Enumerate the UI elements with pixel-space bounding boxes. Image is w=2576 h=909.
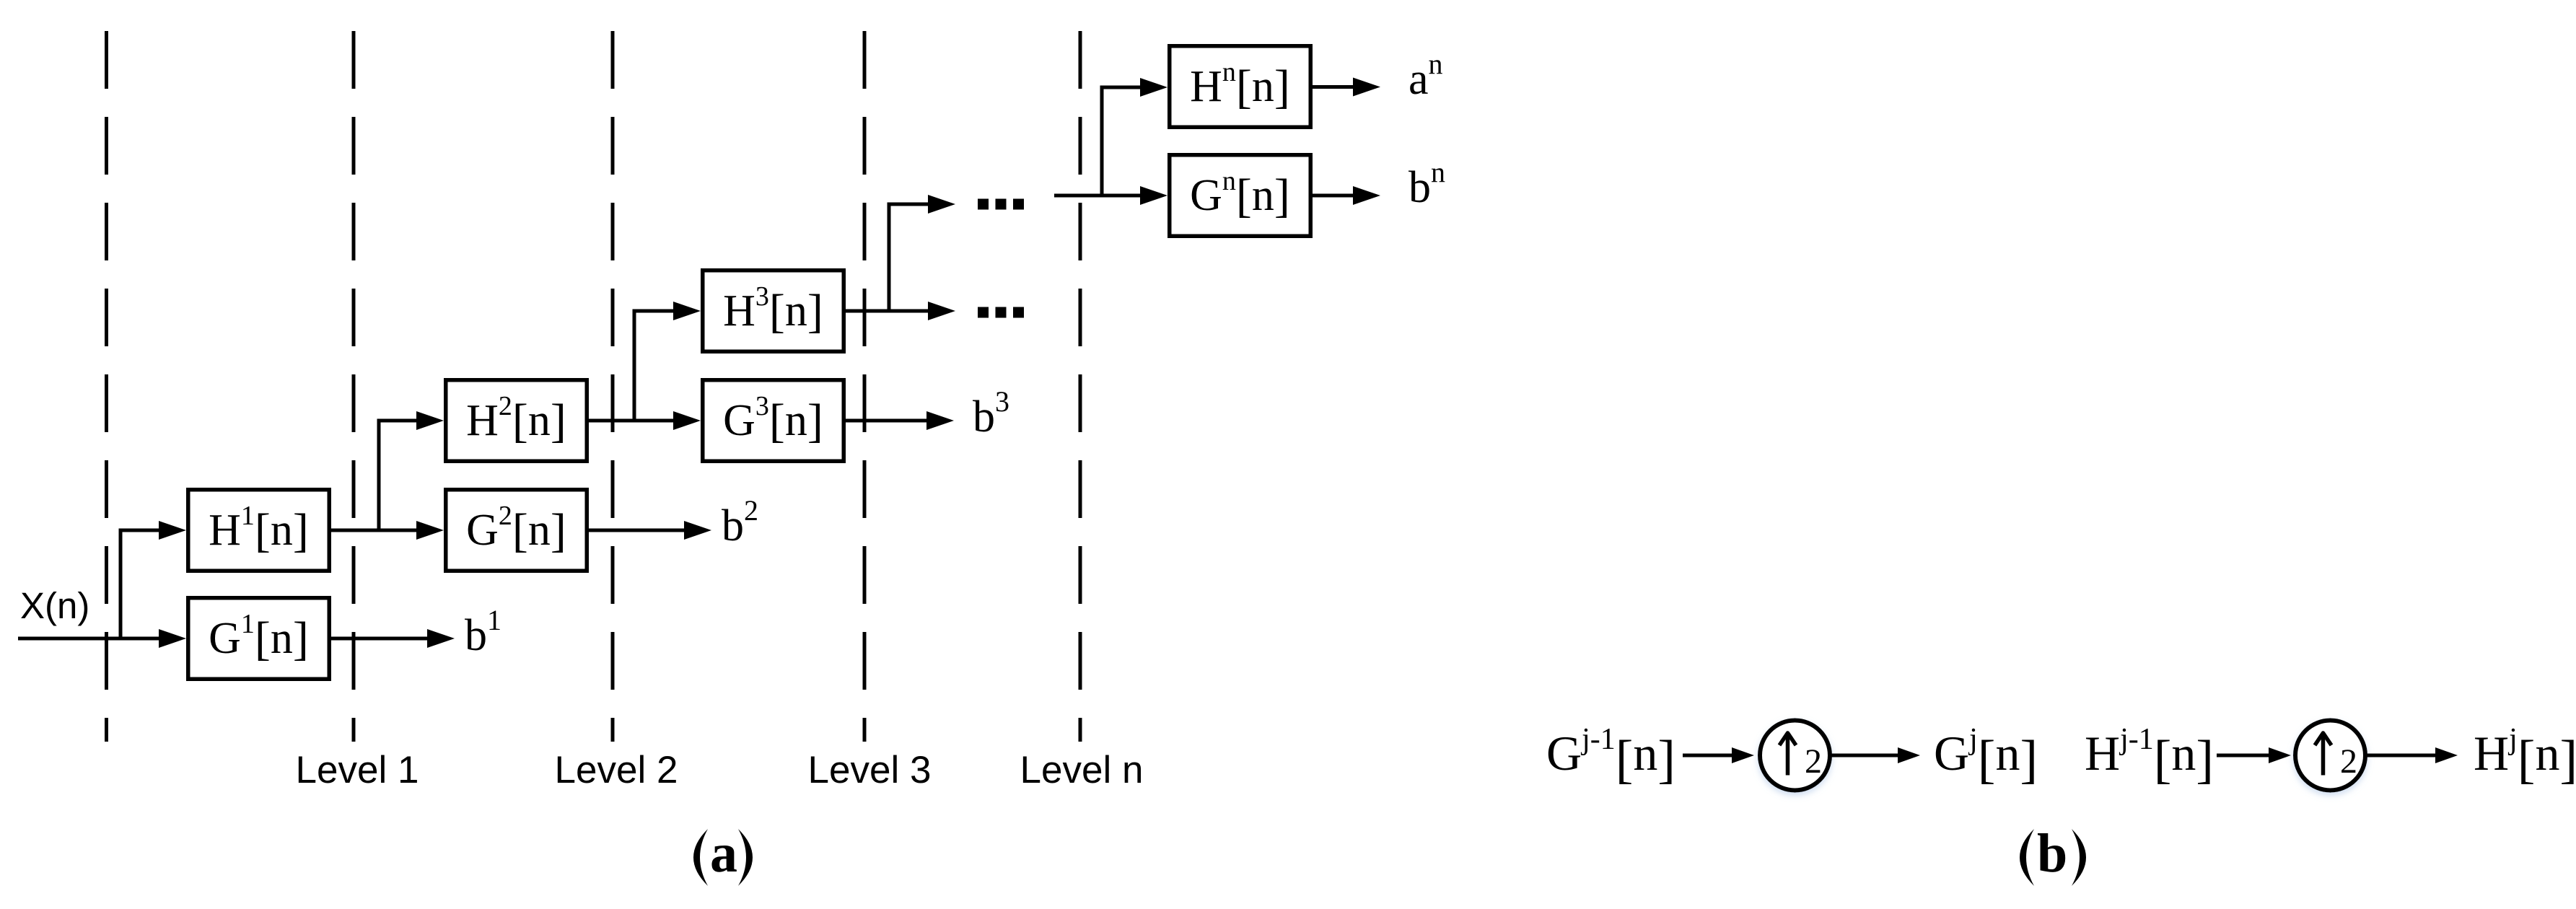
- wire G1 output: [331, 637, 429, 641]
- arrowhead b3: [926, 411, 954, 430]
- wire Hn output: [1310, 85, 1354, 89]
- arrowhead into H3: [673, 302, 701, 320]
- block G2: [446, 490, 587, 571]
- wire: input X(n) horizontal: [18, 637, 162, 641]
- svg-text:b3: b3: [973, 385, 1009, 442]
- dashed level boundary line 5: [1079, 31, 1082, 742]
- svg-text:H1[n]: H1[n]: [209, 501, 309, 557]
- wire resume into level n to Gn: [1054, 194, 1142, 198]
- svg-text:2: 2: [1805, 742, 1822, 781]
- arrowhead into Gn: [1140, 186, 1167, 205]
- upsampler circle 2: [2295, 721, 2365, 791]
- arrowhead to Hj: [2435, 747, 2458, 763]
- svg-text:Hj[n]: Hj[n]: [2474, 723, 2576, 789]
- wire H3 output to lower ellipsis: [844, 309, 931, 313]
- ellipsis dots upper: [978, 199, 1024, 210]
- arrowhead into upsampler 1: [1732, 747, 1754, 763]
- dashed level boundary line 1: [105, 31, 108, 742]
- wire junction vertical up to upper branch: [888, 203, 891, 313]
- svg-text:Level 2: Level 2: [555, 749, 678, 791]
- wire junction vertical up to H3: [633, 309, 636, 423]
- dashed level boundary line 2: [352, 31, 356, 742]
- arrowhead upper ellipsis: [928, 195, 955, 214]
- svg-text:an: an: [1409, 48, 1443, 104]
- caption (a) right parenthesis: [738, 829, 753, 886]
- upsampler 2 up arrow: [2315, 733, 2331, 776]
- arrowhead b2: [684, 521, 711, 540]
- arrowhead into G2: [416, 521, 444, 540]
- svg-text:G3[n]: G3[n]: [723, 391, 823, 447]
- svg-text:Hj-1[n]: Hj-1[n]: [2085, 723, 2214, 789]
- block G1: [188, 598, 330, 680]
- svg-text:a: a: [710, 823, 737, 884]
- svg-text:b1: b1: [465, 604, 501, 660]
- wire upper branch: [888, 203, 932, 206]
- caption (b) right parenthesis: [2072, 829, 2086, 886]
- arrowhead to Gj: [1898, 747, 1920, 763]
- svg-text:Level 3: Level 3: [808, 749, 932, 791]
- arrowhead an: [1353, 78, 1380, 97]
- wire H2 output to G3: [588, 419, 676, 423]
- arrowhead into G3: [673, 411, 701, 430]
- arrowhead into H2: [416, 411, 444, 430]
- caption (a) left parenthesis: [693, 829, 708, 886]
- arrowhead into G1: [159, 629, 186, 648]
- arrowhead b1: [427, 629, 455, 648]
- arrowhead bn: [1353, 186, 1380, 205]
- wire into H2: [377, 419, 420, 423]
- wire into H1: [119, 529, 162, 532]
- wire G2 output: [588, 529, 685, 532]
- block H1: [188, 490, 330, 571]
- dashed level boundary line 4: [863, 31, 867, 742]
- svg-text:G2[n]: G2[n]: [466, 501, 566, 557]
- wire into H3: [633, 309, 677, 313]
- wire: input junction vertical: [119, 529, 123, 639]
- svg-text:Level n: Level n: [1020, 749, 1144, 791]
- svg-text:Gj-1[n]: Gj-1[n]: [1546, 723, 1675, 789]
- svg-text:X(n): X(n): [20, 585, 89, 626]
- arrowhead into Hn: [1140, 78, 1167, 97]
- svg-text:bn: bn: [1409, 156, 1445, 212]
- wire into upsampler 1: [1683, 754, 1735, 757]
- block Hn: [1170, 46, 1311, 128]
- caption (b) left parenthesis: [2020, 829, 2034, 886]
- wire junction vertical up to Hn: [1100, 86, 1104, 198]
- wire into upsampler 2: [2217, 754, 2270, 757]
- svg-text:H3[n]: H3[n]: [723, 281, 823, 338]
- wire from upsampler 1: [1830, 754, 1899, 757]
- svg-text:Level 1: Level 1: [296, 749, 419, 791]
- ellipsis dots lower: [978, 307, 1024, 318]
- wire Gn output: [1310, 194, 1354, 198]
- dashed level boundary line 3: [611, 31, 615, 742]
- svg-text:H2[n]: H2[n]: [466, 391, 566, 447]
- upsampler circle 1: [1760, 721, 1830, 791]
- block H2: [446, 380, 587, 462]
- upsampler 1 up arrow: [1779, 733, 1796, 776]
- svg-text:Gj[n]: Gj[n]: [1934, 723, 2038, 789]
- arrowhead lower ellipsis: [928, 302, 955, 320]
- block Gn: [1170, 155, 1311, 237]
- arrowhead into H1: [159, 521, 186, 540]
- block H3: [703, 271, 844, 352]
- arrowhead into upsampler 2: [2269, 747, 2291, 763]
- wire H1 output to G2: [331, 529, 419, 532]
- svg-text:b2: b2: [722, 494, 758, 550]
- svg-text:Gn[n]: Gn[n]: [1190, 166, 1290, 222]
- svg-text:G1[n]: G1[n]: [209, 609, 309, 665]
- wire from upsampler 2: [2365, 754, 2437, 757]
- svg-text:2: 2: [2340, 742, 2357, 781]
- wire into Hn: [1100, 86, 1143, 89]
- wire junction vertical up to H2: [377, 419, 381, 532]
- svg-text:b: b: [2037, 823, 2067, 884]
- svg-text:Hn[n]: Hn[n]: [1190, 57, 1290, 113]
- block G3: [703, 380, 844, 462]
- wire G3 output: [844, 419, 928, 423]
